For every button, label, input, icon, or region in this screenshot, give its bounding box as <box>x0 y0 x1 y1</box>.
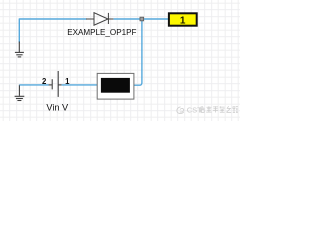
wire <box>19 84 48 86</box>
wire <box>134 20 142 85</box>
junction <box>140 17 144 21</box>
wire <box>62 84 98 86</box>
svg-text:EXAMPLE_OP1PF: EXAMPLE_OP1PF <box>67 27 136 37</box>
wire <box>114 18 168 20</box>
svg-text:2: 2 <box>42 77 47 86</box>
wire <box>19 19 86 43</box>
ground <box>15 85 25 101</box>
diode D1 EXAMPLE_OP1PF <box>86 13 114 26</box>
svg-text:CST: CST <box>187 105 202 114</box>
svg-text:1: 1 <box>180 16 186 27</box>
component U1 <box>97 73 134 99</box>
port 1 <box>169 13 197 26</box>
svg-text:Vin V: Vin V <box>46 103 69 113</box>
ground <box>15 42 24 57</box>
battery V1 Vin <box>49 71 62 97</box>
watermark <box>177 107 184 114</box>
